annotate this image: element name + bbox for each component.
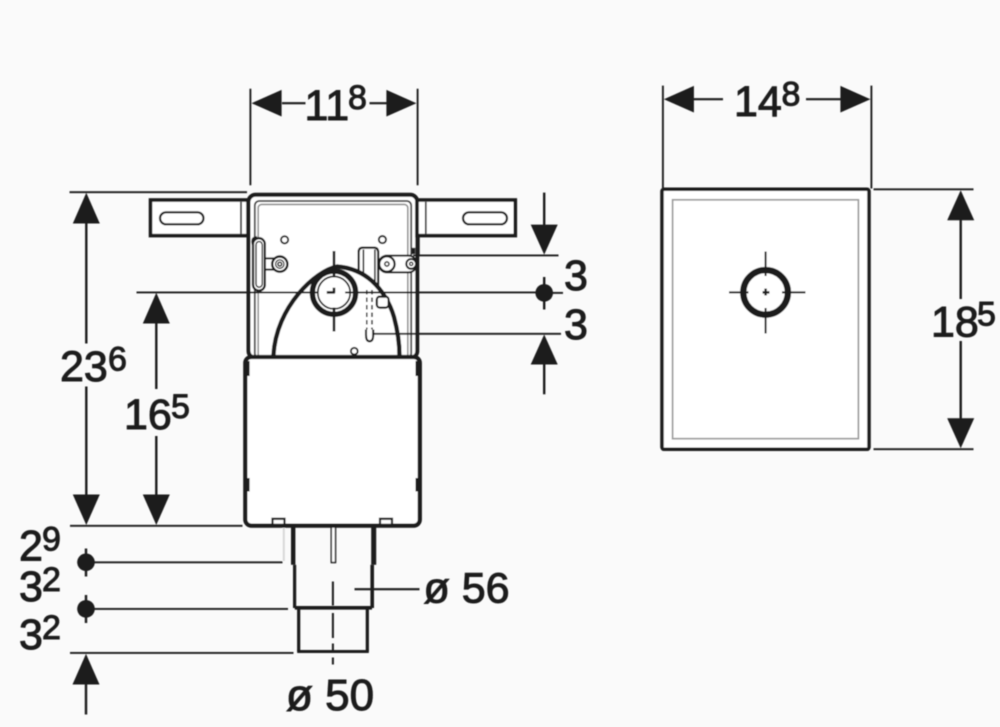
hole top-left (281, 236, 288, 243)
cistern upper box outer (249, 195, 418, 358)
circle center tick (327, 291, 335, 294)
svg-text:ø 50: ø 50 (286, 671, 374, 720)
svg-text:2: 2 (42, 609, 61, 647)
fill valve inner pill (256, 242, 262, 288)
flange inner shade (283, 528, 285, 561)
pipe centerline dashes (332, 582, 334, 606)
outlet flange left (291, 526, 295, 565)
lower tank (245, 357, 419, 526)
svg-text:5: 5 (977, 296, 996, 334)
cover plate crosshair (765, 252, 767, 277)
dimension 118 line (282, 102, 306, 104)
svg-text:23: 23 (60, 343, 108, 391)
dimension 118 extension lines (249, 89, 251, 186)
svg-text:8: 8 (348, 79, 367, 117)
svg-text:16: 16 (124, 391, 172, 439)
dimension 236 line (85, 196, 87, 344)
flush pipe circle (main) (312, 271, 355, 314)
hole above tank (351, 348, 358, 355)
svg-text:9: 9 (42, 521, 61, 559)
dimension 32b line (70, 652, 294, 654)
dimension 236 extension line top (70, 191, 248, 193)
fill valve body (left pill) (253, 238, 265, 290)
tank bottom notch 1 (273, 519, 285, 525)
svg-text:14: 14 (734, 78, 782, 126)
right bracket slot (463, 212, 507, 224)
dimension 148 extension lines (662, 86, 664, 189)
hole top-right (379, 236, 386, 243)
dimension 165 line (155, 296, 157, 389)
outlet pipe o50 left wall (297, 608, 300, 652)
svg-text:11: 11 (305, 82, 350, 130)
tank side tab right 1 (416, 361, 422, 376)
svg-text:8: 8 (782, 76, 801, 114)
tank side tab left 2 (244, 478, 250, 492)
center line through flush circle (137, 291, 319, 293)
right wall bracket (417, 200, 515, 236)
svg-text:3: 3 (564, 252, 588, 300)
overflow tube cap (366, 330, 373, 342)
tank bottom notch 2 (380, 519, 392, 525)
svg-text:5: 5 (171, 388, 190, 426)
dimension 185 extension lines (874, 188, 974, 190)
outlet flange right (371, 526, 376, 565)
outlet pipe shoulder (295, 606, 372, 610)
left bracket fold line (240, 202, 242, 234)
cistern inner wall line 1 (255, 201, 411, 358)
dimension 32b arrow (73, 654, 100, 685)
dimension 32a dot and line (86, 608, 288, 610)
fill valve knob (272, 257, 287, 272)
cover plate inner line (673, 200, 859, 439)
right bracket fold line (425, 202, 427, 234)
outlet pipe o56 right wall (370, 565, 374, 608)
flush linkage arm (379, 256, 417, 273)
cistern inner wall line 2 (258, 204, 408, 358)
svg-text:2: 2 (42, 561, 61, 599)
dimension 185 line (960, 219, 962, 299)
outlet pipe o50 bottom (297, 650, 369, 653)
circle crosshair vertical (333, 251, 336, 276)
cover plate circle (743, 270, 788, 315)
left wall bracket (151, 200, 249, 236)
overflow tube (359, 248, 379, 286)
dimension 29 dot and line (86, 561, 283, 563)
flush bell arc (273, 267, 399, 356)
fill valve arm (264, 257, 275, 259)
dimension 3-3 extension lines (413, 254, 559, 256)
svg-text:3: 3 (19, 563, 43, 611)
svg-text:18: 18 (931, 299, 979, 347)
bell tab (377, 297, 389, 308)
bracket foot block (412, 248, 416, 254)
overflow tube hidden (dashed) (366, 290, 368, 330)
outlet pipe o56 left wall (293, 565, 296, 608)
right bracket foot (417, 236, 420, 256)
svg-text:6: 6 (108, 341, 127, 379)
leader o56 (355, 588, 420, 590)
svg-text:3: 3 (564, 301, 588, 349)
dimension 148 line (693, 98, 723, 100)
svg-text:ø 56: ø 56 (424, 565, 510, 613)
tank side tab left 1 (244, 361, 250, 376)
dimension 236/165 extension line bottom (70, 525, 243, 527)
fill valve hook (252, 237, 259, 247)
tank side tab right 2 (416, 478, 422, 492)
flush rod (331, 527, 335, 563)
outlet pipe o50 right wall (366, 608, 369, 652)
dimension 3-3 vertical (543, 193, 545, 226)
cover plate (side view) (662, 189, 869, 449)
left bracket slot (160, 212, 204, 224)
svg-text:3: 3 (19, 611, 43, 659)
